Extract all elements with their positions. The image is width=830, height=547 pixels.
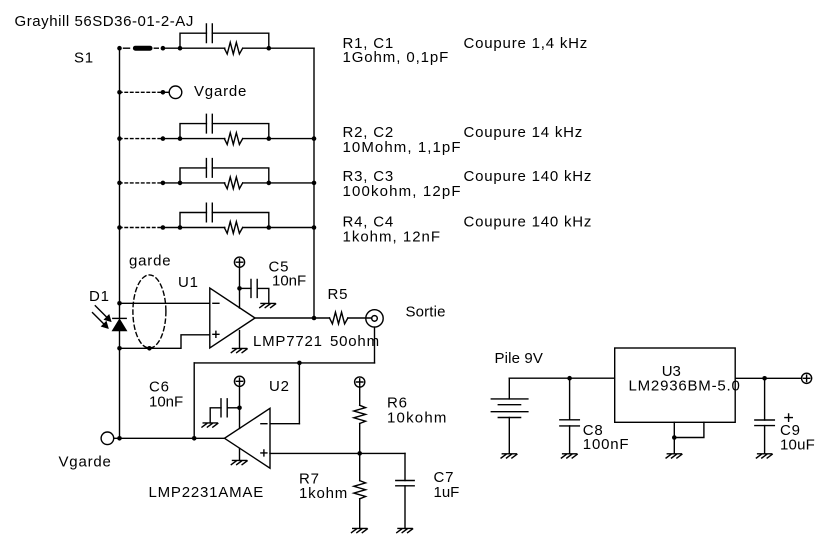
capacitor C2 bbox=[206, 114, 212, 133]
resistor R1 bbox=[224, 42, 242, 54]
wire S1 dashed throw row4 bbox=[120, 227, 163, 229]
wire R4 left lead bbox=[180, 227, 225, 229]
wire battery to U3 input bbox=[509, 377, 614, 379]
capacitor C3 bbox=[206, 159, 212, 178]
supply plus U2 bbox=[234, 376, 244, 386]
node S1 common pole row1 bbox=[117, 46, 122, 51]
resistor R7 bbox=[354, 481, 366, 499]
wire C4 branch up-left bbox=[180, 213, 206, 228]
svg-text:10kohm: 10kohm bbox=[387, 409, 448, 426]
svg-text:Coupure 14 kHz: Coupure 14 kHz bbox=[464, 124, 584, 141]
wire C7 top lead bbox=[404, 453, 406, 480]
node S1 throw 1 contact bbox=[161, 46, 166, 51]
svg-text:Sortie: Sortie bbox=[406, 303, 446, 320]
node R3 left junction bbox=[178, 181, 183, 186]
node U1 V+ C5 junction bbox=[237, 286, 242, 291]
svg-text:1Gohm, 0,1pF: 1Gohm, 0,1pF bbox=[343, 49, 450, 66]
wire R3 right lead bbox=[243, 182, 269, 184]
svg-text:10nF: 10nF bbox=[272, 273, 306, 290]
node S1 common row4 bbox=[117, 225, 122, 230]
wire row2 to right bus bbox=[269, 138, 314, 140]
ground U3 bbox=[666, 454, 682, 458]
wire U2 V- pin bbox=[239, 449, 241, 461]
node S1 common row3 bbox=[117, 181, 122, 186]
resistor R2 bbox=[224, 133, 242, 145]
wire right bus bbox=[313, 48, 315, 318]
wire R4 right lead bbox=[243, 227, 269, 229]
capacitor C7 bbox=[396, 481, 414, 486]
U1 minus sign bbox=[213, 302, 219, 304]
wire U3 output bbox=[735, 377, 802, 379]
svg-text:10Mohm, 1,1pF: 10Mohm, 1,1pF bbox=[343, 139, 462, 156]
wire Vgarde contact stub bbox=[163, 91, 169, 93]
wire guard bus to U2 output bbox=[114, 437, 225, 439]
wire S1 dashed throw row3 bbox=[120, 182, 163, 184]
node R2 left junction bbox=[178, 136, 183, 141]
regulator U3 box bbox=[615, 348, 736, 422]
wire D1 cathode to U1 inverting input bbox=[120, 302, 210, 304]
node S1 throw contact row2 bbox=[161, 136, 166, 141]
wire row4 to right bus bbox=[269, 227, 314, 229]
svg-text:Coupure 140 kHz: Coupure 140 kHz bbox=[464, 168, 593, 185]
node R1 left junction bbox=[178, 46, 183, 51]
wire C8 bottom lead bbox=[569, 426, 571, 454]
wire C9 bottom lead bbox=[764, 426, 766, 454]
capacitor C1 bbox=[206, 24, 212, 43]
wire U2 inverting input bbox=[270, 423, 299, 425]
node U1 output feedback junction bbox=[312, 316, 317, 321]
capacitor C6 bbox=[221, 399, 227, 417]
wire U3 ground pin right bbox=[674, 422, 704, 437]
svg-text:LM2936BM-5.0: LM2936BM-5.0 bbox=[629, 378, 741, 395]
svg-text:S1: S1 bbox=[74, 50, 94, 67]
wire R6 bottom lead bbox=[359, 424, 361, 454]
wire R2 left lead bbox=[180, 138, 225, 140]
wire R2 right lead bbox=[243, 138, 269, 140]
wire R7 top lead bbox=[359, 453, 361, 480]
node guard ellipse to +input wire bbox=[147, 346, 152, 351]
wire R1 left lead bbox=[180, 47, 225, 49]
svg-text:1kohm: 1kohm bbox=[299, 485, 348, 502]
node guard bus left bbox=[117, 436, 122, 441]
wire throw1 to feedback node bbox=[163, 47, 180, 49]
resistor R5 bbox=[330, 312, 348, 324]
svg-text:U1: U1 bbox=[178, 274, 199, 291]
svg-text:D1: D1 bbox=[89, 288, 110, 305]
wire Sortie down to feedback bbox=[374, 327, 376, 363]
ground R7 bbox=[352, 528, 368, 532]
wire C2 branch up-left bbox=[180, 124, 206, 139]
wire C5 right lead to ground bbox=[257, 288, 269, 303]
wire C7 bottom lead bbox=[404, 486, 406, 529]
svg-text:Vgarde: Vgarde bbox=[194, 83, 247, 100]
wire C8 top lead bbox=[569, 378, 571, 420]
wire divider to C7 bbox=[360, 452, 405, 454]
battery Pile 9V bbox=[491, 399, 528, 418]
capacitor C8 bbox=[560, 420, 580, 426]
wire S1 wiper dash left bbox=[124, 47, 130, 49]
U2 minus sign bbox=[261, 423, 267, 425]
wire battery bottom lead bbox=[508, 418, 510, 454]
wire C1 branch right-down bbox=[212, 33, 268, 48]
terminal Vgarde bottom bbox=[101, 432, 114, 445]
wire C3 branch up-left bbox=[180, 168, 206, 183]
light arrow 1 into D1 bbox=[95, 306, 107, 318]
svg-text:LMP2231AMAE: LMP2231AMAE bbox=[149, 484, 265, 501]
node S1 Vgarde contact bbox=[161, 90, 166, 95]
wire U1 V- pin bbox=[239, 331, 241, 349]
svg-text:1kohm, 12nF: 1kohm, 12nF bbox=[343, 229, 442, 246]
U1 plus sign bbox=[213, 331, 219, 337]
wire C2 branch right-down bbox=[212, 124, 268, 139]
wire left bus upper bbox=[119, 48, 121, 318]
node U2 V+ C6 junction bbox=[237, 406, 242, 411]
wire R3 left lead bbox=[180, 182, 225, 184]
wire left bus lower bbox=[119, 331, 121, 439]
node R4 C4 right junction bbox=[267, 225, 272, 230]
wire S1 dashed throw row2 bbox=[120, 138, 163, 140]
svg-text:Pile 9V: Pile 9V bbox=[495, 350, 544, 367]
svg-text:R5: R5 bbox=[328, 286, 349, 303]
wire feedback down to guard bus bbox=[193, 363, 195, 438]
node right bus row3 bbox=[312, 181, 317, 186]
wire S1 wiper dash right bbox=[154, 47, 158, 49]
ground C9 bbox=[756, 454, 772, 458]
node S1 common row2 bbox=[117, 136, 122, 141]
wire R5 left lead bbox=[314, 317, 330, 319]
svg-text:50ohm: 50ohm bbox=[330, 333, 380, 350]
wire D1 anode to step bbox=[120, 335, 210, 349]
wire C4 branch right-down bbox=[212, 213, 268, 228]
wire U1 V+ pin bbox=[239, 267, 241, 308]
svg-text:100nF: 100nF bbox=[583, 436, 630, 453]
node S1 throw contact row3 bbox=[161, 181, 166, 186]
node S1 common Vgarde row bbox=[117, 90, 122, 95]
svg-text:10uF: 10uF bbox=[780, 436, 815, 453]
resistor R3 bbox=[224, 177, 242, 189]
capacitor C4 bbox=[206, 203, 212, 222]
node battery C8 junction bbox=[567, 376, 572, 381]
wire U1 output bbox=[255, 317, 314, 319]
svg-text:Vgarde: Vgarde bbox=[59, 454, 112, 471]
wire throw to node row3 bbox=[163, 182, 180, 184]
ground battery bbox=[501, 454, 517, 458]
svg-text:Coupure 1,4 kHz: Coupure 1,4 kHz bbox=[464, 35, 589, 52]
light arrow 2 into D1 bbox=[93, 313, 105, 325]
wire R5 right lead bbox=[348, 317, 372, 319]
label C9 plus sign bbox=[785, 414, 792, 421]
wire S1 dashed to Vgarde contact bbox=[120, 91, 163, 93]
wire battery top lead bbox=[508, 378, 510, 399]
node R3 C3 right junction bbox=[267, 181, 272, 186]
wire U3 ground lead bbox=[673, 438, 675, 454]
wire R7 bottom lead bbox=[359, 499, 361, 529]
svg-text:100kohm, 12pF: 100kohm, 12pF bbox=[343, 183, 462, 200]
node divider R6 R7 C7 bbox=[357, 451, 362, 456]
wire C5 left lead bbox=[240, 287, 252, 289]
svg-text:Grayhill 56SD36-01-2-AJ: Grayhill 56SD36-01-2-AJ bbox=[15, 13, 194, 30]
supply plus U1 bbox=[234, 257, 244, 267]
node U3 ground junction bbox=[672, 435, 677, 440]
wire U2 inverting riser bbox=[298, 363, 300, 424]
node U3 output C9 junction bbox=[762, 376, 767, 381]
guard ring ellipse bbox=[133, 275, 166, 348]
svg-text:1uF: 1uF bbox=[434, 484, 460, 501]
wire U2 plus input to divider bbox=[270, 452, 360, 454]
wire C1 branch up-left bbox=[180, 33, 206, 48]
svg-text:10nF: 10nF bbox=[149, 394, 183, 411]
node R4 left junction bbox=[178, 225, 183, 230]
ground U2 V- bbox=[231, 460, 247, 464]
resistor R6 bbox=[354, 405, 366, 423]
node S1 throw contact row4 bbox=[161, 225, 166, 230]
svg-text:U2: U2 bbox=[269, 378, 290, 395]
wire C6 left lead to ground bbox=[210, 408, 221, 423]
resistor R4 bbox=[224, 222, 242, 234]
node R1 C1 right junction bbox=[267, 46, 272, 51]
capacitor C5 bbox=[251, 279, 257, 297]
svg-text:garde: garde bbox=[129, 253, 171, 270]
wire U2 V+ pin bbox=[239, 386, 241, 429]
ground C8 bbox=[561, 454, 577, 458]
U2 plus sign bbox=[261, 450, 267, 456]
wire row3 to right bus bbox=[269, 182, 314, 184]
wire R6 top lead bbox=[359, 387, 361, 406]
node right bus row4 bbox=[312, 225, 317, 230]
wire row1 to right bus bbox=[269, 47, 314, 49]
node feedback to U2 inverting bbox=[297, 361, 302, 366]
wire U3 ground pin left bbox=[673, 422, 675, 437]
node right bus row2 bbox=[312, 136, 317, 141]
wire C3 branch right-down bbox=[212, 168, 268, 183]
switch S1 wiper bar bbox=[135, 46, 150, 51]
ground C6 bbox=[202, 423, 218, 427]
wire throw to node row2 bbox=[163, 138, 180, 140]
node R2 C2 right junction bbox=[267, 136, 272, 141]
photodiode D1 bbox=[113, 317, 126, 319]
node guard bus feedback tap bbox=[192, 436, 197, 441]
capacitor C9 bbox=[755, 420, 775, 426]
node D1 anode junction bbox=[117, 346, 122, 351]
svg-text:LMP7721: LMP7721 bbox=[253, 333, 323, 350]
terminal Vgarde top bbox=[169, 86, 182, 99]
ground C7 bbox=[397, 528, 413, 532]
ground U1 V- bbox=[231, 348, 247, 352]
wire C9 top lead bbox=[764, 378, 766, 420]
wire C6 right lead bbox=[227, 407, 239, 409]
wire feedback horizontal bbox=[194, 362, 374, 364]
op-amp U2 bbox=[225, 408, 271, 468]
supply plus R6 bbox=[355, 377, 365, 387]
node D1 cathode junction bbox=[117, 301, 122, 306]
wire R1 right lead bbox=[243, 47, 269, 49]
ground C5 bbox=[260, 303, 276, 307]
op-amp U1 bbox=[210, 288, 255, 348]
supply plus output terminal bbox=[802, 373, 812, 383]
wire throw to node row4 bbox=[163, 227, 180, 229]
terminal Sortie connector bbox=[366, 310, 383, 327]
svg-text:Coupure 140 kHz: Coupure 140 kHz bbox=[464, 214, 593, 231]
